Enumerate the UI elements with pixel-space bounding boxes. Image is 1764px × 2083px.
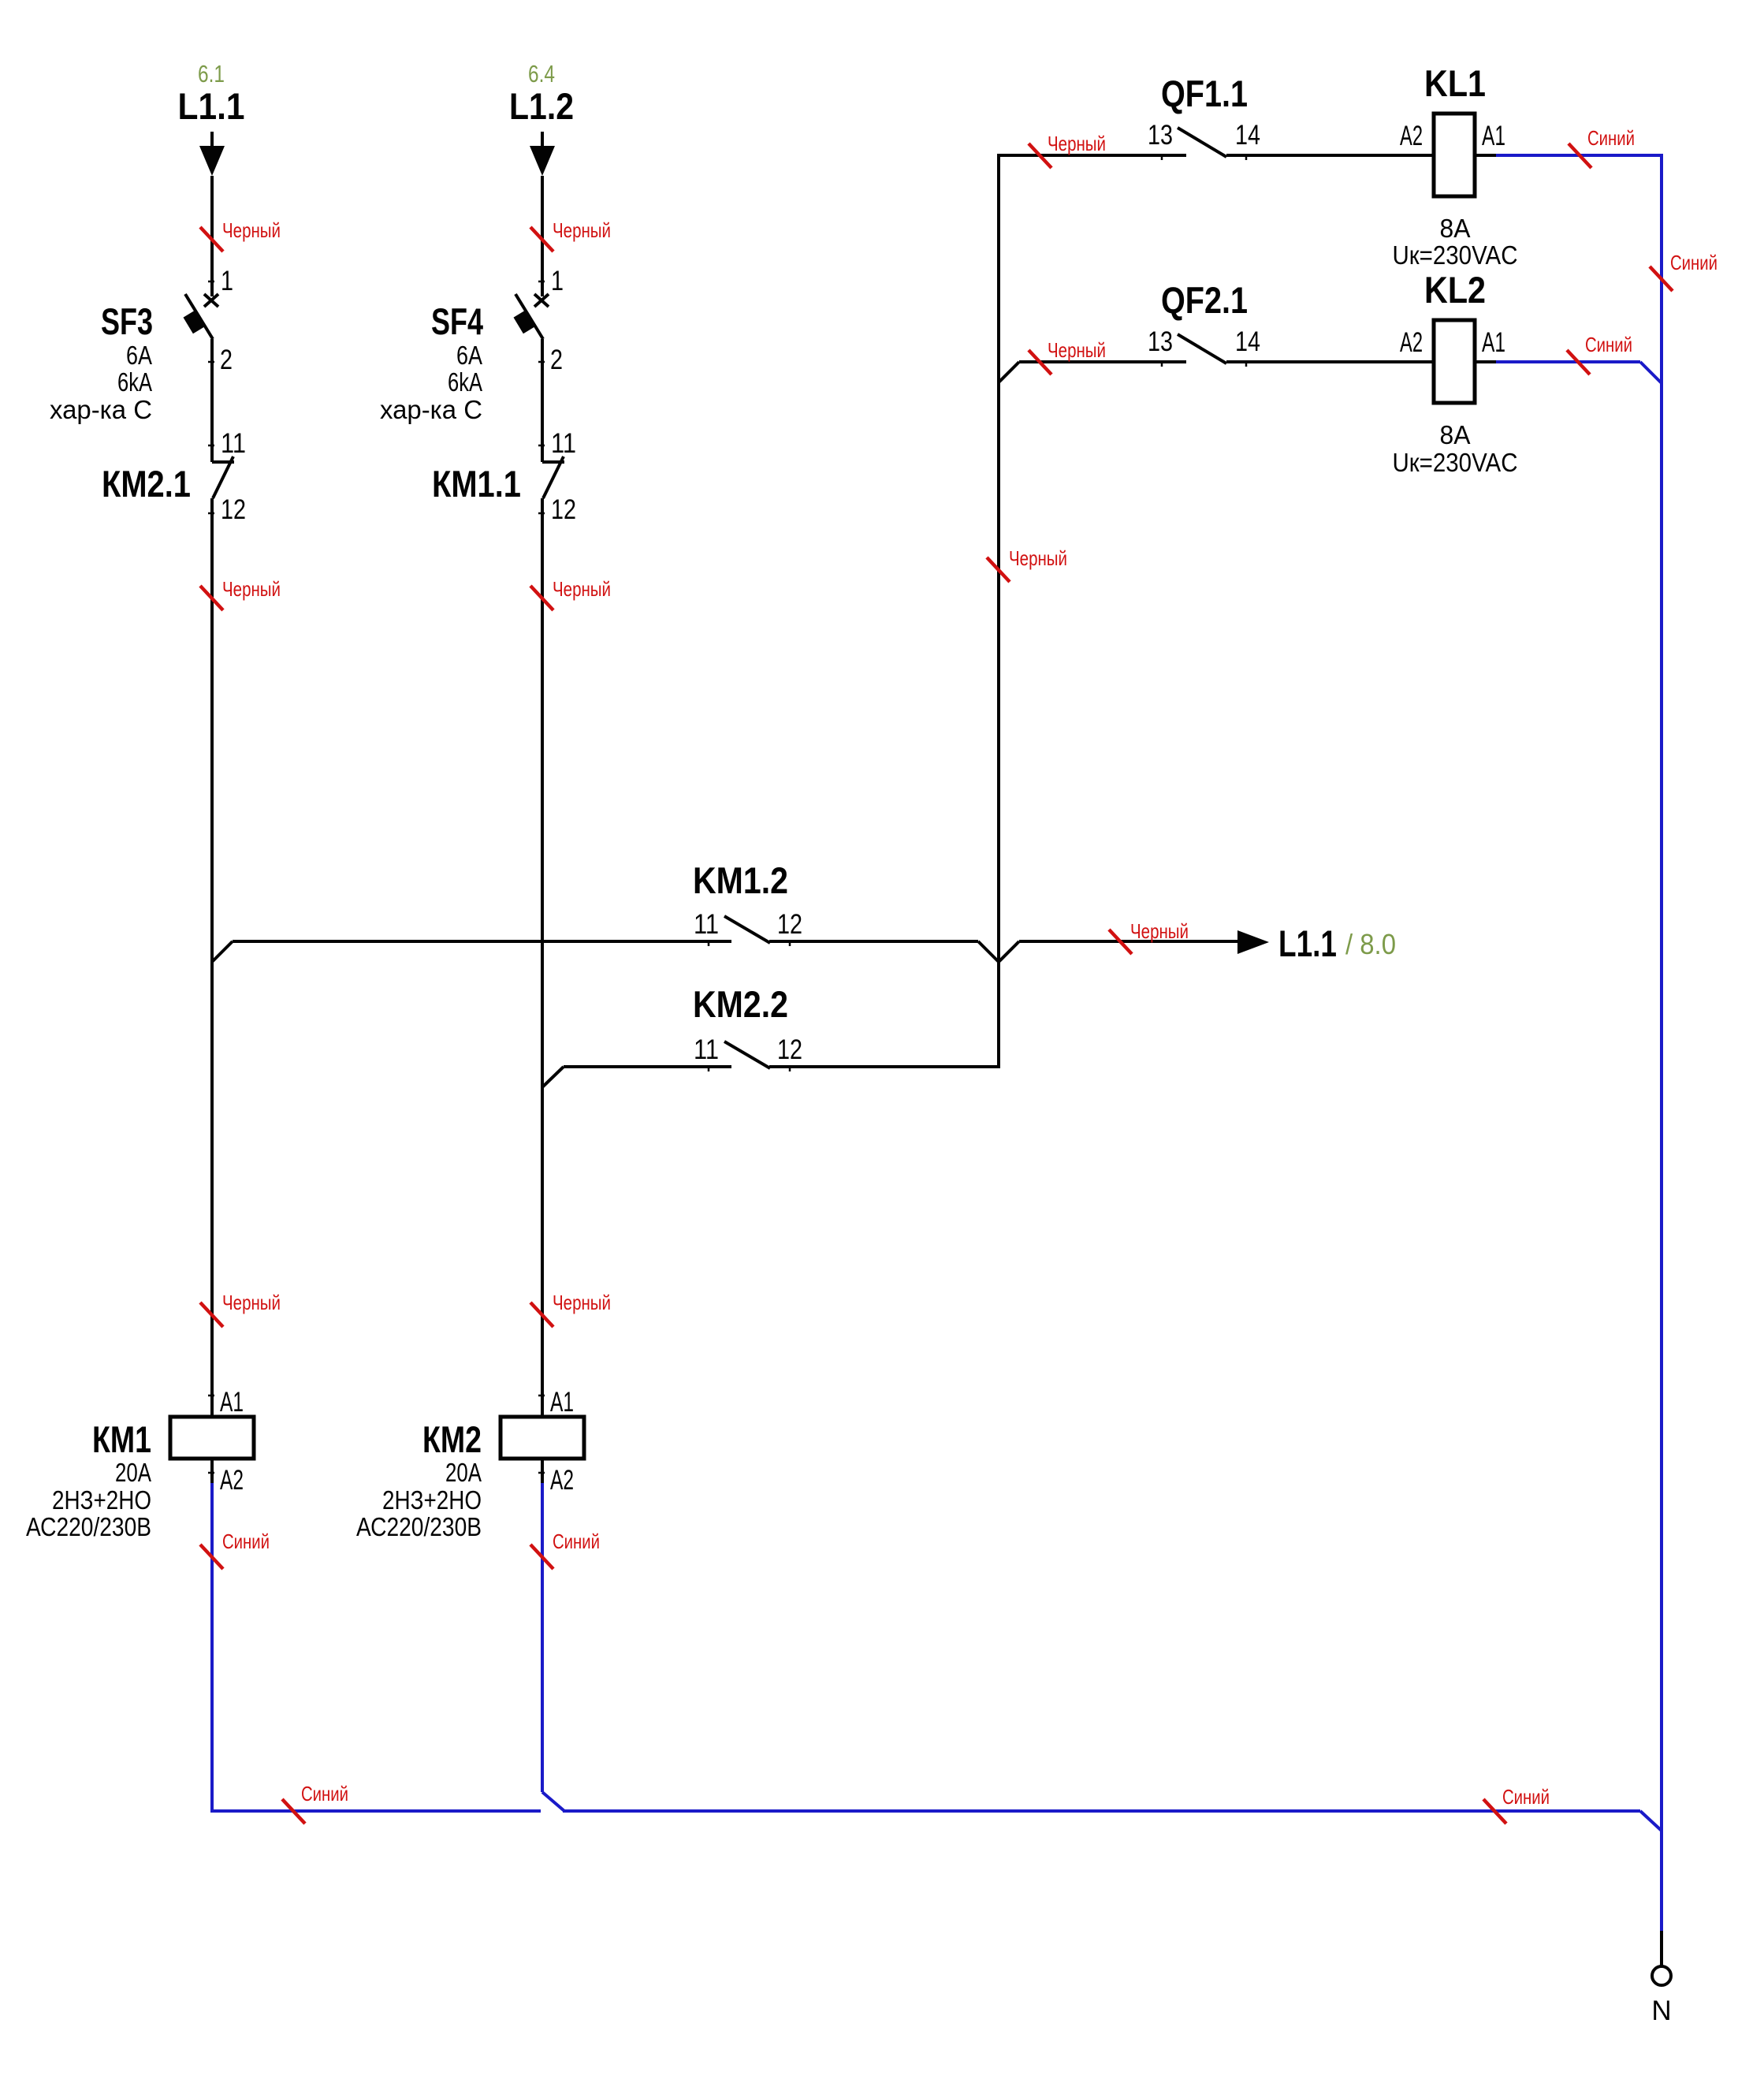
wire color mark Черный (output row): [1109, 930, 1132, 954]
wire color mark Черный (above KM2 coil): [530, 1302, 553, 1327]
svg-text:2: 2: [550, 345, 563, 375]
svg-text:A2: A2: [1400, 327, 1423, 358]
svg-text:A1: A1: [220, 1387, 244, 1418]
wire color mark Черный (branch L1.2 top): [530, 227, 553, 252]
svg-text:SF3: SF3: [101, 300, 153, 342]
svg-text:A2: A2: [1400, 121, 1423, 151]
svg-text:20А: 20А: [445, 1458, 482, 1487]
wire junction control node to output row: [999, 941, 1019, 962]
svg-text:хар-ка С: хар-ка С: [380, 395, 482, 424]
NC contact KM1.1: [542, 460, 564, 464]
wire vertical control feed: [997, 154, 1000, 1065]
svg-text:A1: A1: [1482, 121, 1505, 151]
wire QF1.1 to KL1 coil: [1226, 154, 1434, 157]
incoming feed arrow L1.1: [199, 146, 225, 176]
svg-text:Черный: Черный: [553, 1291, 611, 1314]
svg-text:хар-ка С: хар-ка С: [50, 395, 152, 424]
svg-text:Черный: Черный: [1048, 132, 1106, 155]
wire junction N bus to N riser: [1640, 1811, 1662, 1831]
wire stub below KM2 coil: [541, 1459, 544, 1483]
svg-text:6kA: 6kA: [117, 367, 152, 397]
contactor coil KM2: [501, 1417, 584, 1459]
svg-text:L1.1: L1.1: [178, 85, 245, 127]
svg-text:Синий: Синий: [1587, 126, 1635, 150]
svg-text:Uк=230VAC: Uк=230VAC: [1393, 448, 1518, 477]
wire color mark Черный (branch L1.1 top): [200, 227, 223, 252]
svg-text:KL2: KL2: [1424, 269, 1486, 311]
svg-text:12: 12: [221, 494, 246, 525]
svg-text:КМ2: КМ2: [422, 1418, 482, 1460]
svg-text:KM2.2: KM2.2: [693, 983, 788, 1025]
NO contact QF1.1: [1178, 128, 1226, 157]
svg-text:A2: A2: [220, 1465, 244, 1496]
svg-text:1: 1: [221, 266, 233, 296]
svg-text:КМ1.1: КМ1.1: [432, 463, 521, 505]
wire blue KM2 A2 down to N bus: [541, 1483, 544, 1792]
svg-text:Синий: Синий: [301, 1782, 348, 1805]
wire SF3 to KM2.1: [210, 339, 214, 462]
wire blue KL2 A1 right: [1475, 360, 1496, 363]
terminal N: [1652, 1966, 1671, 1985]
svg-text:Черный: Черный: [222, 1291, 281, 1314]
wire color mark Черный (vertical control feed): [987, 557, 1010, 582]
wire color mark Синий (N riser): [1650, 266, 1673, 291]
wire color mark Черный (QF2.1 row): [1029, 350, 1051, 374]
wire blue KL1 A1 to N riser: [1475, 154, 1496, 157]
svg-text:QF2.1: QF2.1: [1161, 279, 1248, 321]
wire blue KM1 A2 down to N bus: [210, 1483, 214, 1813]
svg-text:/ 8.0: / 8.0: [1345, 928, 1396, 960]
svg-text:2НЗ+2НО: 2НЗ+2НО: [52, 1485, 151, 1515]
svg-text:11: 11: [551, 428, 576, 459]
wire blue N bus right: [563, 1809, 1640, 1813]
wire KM1.2 row left: [233, 940, 731, 943]
contactor coil KM1: [170, 1417, 254, 1459]
wire KM1.1 down to KM2 coil: [541, 498, 544, 1417]
svg-text:12: 12: [777, 1034, 802, 1065]
svg-text:12: 12: [551, 494, 576, 525]
svg-text:Черный: Черный: [1048, 338, 1106, 362]
svg-text:QF1.1: QF1.1: [1161, 73, 1248, 114]
svg-text:13: 13: [1148, 326, 1173, 357]
svg-text:6A: 6A: [126, 341, 152, 370]
relay coil KL2: [1434, 320, 1475, 403]
svg-text:L1.1: L1.1: [1278, 922, 1337, 964]
svg-text:2НЗ+2НО: 2НЗ+2НО: [382, 1485, 482, 1515]
wire color mark Черный (branch L1.1 middle): [200, 586, 223, 610]
wire color mark Черный (branch L1.2 middle): [530, 586, 553, 610]
svg-text:14: 14: [1235, 120, 1260, 151]
svg-text:A1: A1: [550, 1387, 574, 1418]
wire color mark Синий (N bus left): [282, 1799, 305, 1824]
wire output row to arrow: [1019, 940, 1239, 943]
wire blue N riser: [1660, 154, 1663, 1931]
svg-text:Uк=230VAC: Uк=230VAC: [1393, 240, 1518, 270]
svg-text:A2: A2: [550, 1465, 574, 1496]
svg-text:1: 1: [551, 266, 564, 296]
svg-text:11: 11: [694, 909, 719, 940]
svg-text:L1.2: L1.2: [509, 85, 574, 127]
svg-text:Черный: Черный: [553, 218, 611, 242]
NC contact KM1.2: [724, 916, 770, 943]
svg-text:Черный: Черный: [222, 218, 281, 242]
svg-text:KL1: KL1: [1424, 62, 1486, 104]
svg-text:6kA: 6kA: [448, 367, 482, 397]
svg-text:N: N: [1651, 1995, 1671, 2026]
svg-text:Синий: Синий: [222, 1530, 270, 1553]
svg-text:8A: 8A: [1440, 420, 1471, 449]
NC contact KM2.1: [212, 460, 234, 464]
incoming feed arrow L1.2: [530, 146, 555, 176]
svg-text:Синий: Синий: [1585, 333, 1632, 356]
svg-text:АС220/230В: АС220/230В: [356, 1512, 482, 1541]
wire KM2.1 down to KM1 coil: [210, 498, 214, 1417]
wire stub above terminal N: [1660, 1931, 1663, 1966]
svg-text:КМ1: КМ1: [92, 1418, 151, 1460]
wire color mark Синий (below KM2): [530, 1545, 553, 1569]
outgoing feed arrow L1.1: [1237, 930, 1269, 954]
wire junction branch to KM2.2 row: [542, 1067, 564, 1087]
svg-text:8A: 8A: [1440, 214, 1471, 243]
wire SF4 to KM1.1: [541, 339, 544, 462]
wire junction KM2 branch to N bus: [542, 1792, 564, 1811]
svg-text:11: 11: [221, 428, 246, 459]
svg-text:Черный: Черный: [1009, 546, 1067, 570]
wire junction KL2 row to N riser: [1640, 362, 1662, 383]
wire color mark Синий (below KM1): [200, 1545, 223, 1569]
wire color mark Синий (KL2 row): [1567, 350, 1590, 374]
svg-text:Черный: Черный: [553, 577, 611, 601]
svg-text:АС220/230В: АС220/230В: [26, 1512, 151, 1541]
wire stub above L1.2 arrow: [541, 132, 544, 147]
wire L1.2 arrow to SF4: [541, 176, 544, 296]
svg-text:A1: A1: [1482, 327, 1505, 358]
wire color mark Черный (above KM1 coil): [200, 1302, 223, 1327]
breaker SF3: [204, 294, 218, 307]
svg-text:Черный: Черный: [222, 577, 281, 601]
svg-text:6.4: 6.4: [528, 60, 555, 88]
svg-text:13: 13: [1148, 120, 1173, 151]
wire QF2.1 row left: [1019, 360, 1186, 363]
wire color mark Синий (KL1 row): [1569, 143, 1591, 168]
svg-text:12: 12: [777, 909, 802, 940]
wire junction control feed to QF2.1 row: [999, 362, 1019, 382]
NO contact QF2.1: [1178, 334, 1226, 363]
wire QF1.1 row left: [997, 154, 1186, 157]
svg-text:2: 2: [220, 345, 233, 375]
svg-text:KM1.2: KM1.2: [693, 859, 788, 901]
svg-text:Синий: Синий: [1502, 1785, 1550, 1809]
breaker SF4: [534, 294, 549, 307]
svg-text:SF4: SF4: [431, 300, 483, 342]
svg-text:Синий: Синий: [1670, 251, 1717, 274]
svg-text:11: 11: [694, 1034, 719, 1065]
wire junction branch to KM1.2 row: [212, 941, 233, 962]
wire color mark Черный (QF1.1 row): [1029, 143, 1051, 168]
wire KM2.2 row right: [769, 1065, 1000, 1068]
svg-text:Синий: Синий: [553, 1530, 600, 1553]
wire L1.1 arrow to SF3: [210, 176, 214, 296]
wire stub above L1.1 arrow: [210, 132, 214, 147]
svg-text:6.1: 6.1: [198, 60, 225, 88]
wire blue N bus left: [210, 1809, 541, 1813]
svg-text:14: 14: [1235, 326, 1260, 357]
svg-text:КМ2.1: КМ2.1: [102, 463, 191, 505]
svg-text:20А: 20А: [115, 1458, 151, 1487]
svg-text:6A: 6A: [456, 341, 482, 370]
wire junction KM1.2 row into control node: [978, 941, 999, 962]
wire KM1.2 row right: [769, 940, 978, 943]
wire stub below KM1 coil: [210, 1459, 214, 1483]
wire color mark Синий (N bus right): [1483, 1799, 1506, 1824]
svg-text:Черный: Черный: [1130, 919, 1189, 943]
wire KM2.2 row left: [564, 1065, 731, 1068]
NC contact KM2.2: [724, 1041, 770, 1068]
relay coil KL1: [1434, 114, 1475, 196]
wire QF2.1 to KL2 coil: [1226, 360, 1434, 363]
